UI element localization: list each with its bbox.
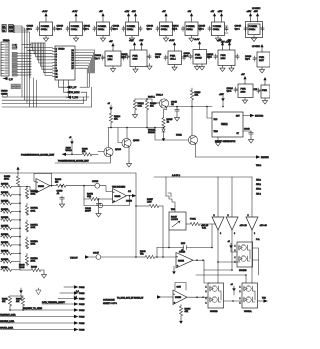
svg-text:1N4148: 1N4148 — [148, 132, 155, 134]
svg-text:W_MDM: W_MDM — [71, 92, 80, 94]
svg-text:10K: 10K — [2, 301, 6, 303]
svg-text:C3040: C3040 — [244, 129, 250, 131]
resistor R3057 — [136, 199, 163, 208]
resistor R3019 pullup — [190, 88, 201, 107]
svg-text:+15V: +15V — [218, 11, 223, 13]
svg-text:P3010: P3010 — [79, 287, 84, 289]
svg-text:4: 4 — [56, 54, 57, 56]
transistor Q3010 — [152, 95, 169, 110]
power +5 opto1 — [228, 241, 238, 252]
svg-text:+5: +5 — [108, 103, 111, 105]
wire +15V rail — [169, 106, 212, 108]
buffer U3043 — [246, 177, 267, 235]
ground diode — [162, 136, 166, 141]
svg-text:C301x: C301x — [186, 29, 193, 31]
resistor R3066 — [16, 296, 25, 310]
svg-text:PWR: PWR — [108, 56, 114, 58]
svg-text:2015: 2015 — [133, 58, 139, 60]
svg-text:R3012: R3012 — [138, 103, 145, 105]
svg-text:2017: 2017 — [259, 60, 265, 62]
connector J300 input header — [2, 25, 15, 33]
svg-text:TW-0:: TW-0: — [256, 165, 262, 167]
svg-text:J_W: J_W — [9, 79, 13, 81]
optocoupler U3056A — [240, 283, 258, 313]
power module PS3025 right edge — [254, 77, 271, 104]
svg-text:Qty 1: Qty 1 — [147, 27, 153, 30]
svg-text:SBR: SBR — [87, 196, 92, 198]
svg-text:11: 11 — [56, 74, 58, 76]
svg-text:.01: .01 — [57, 193, 61, 195]
svg-text:C3023: C3023 — [245, 56, 252, 58]
net arrow W_MDM — [64, 83, 87, 100]
net arrow TXC — [258, 298, 268, 303]
resistor R3052A 2R leg — [25, 220, 38, 232]
svg-text:+5: +5 — [228, 241, 230, 243]
svg-text:+15V: +15V — [219, 94, 224, 96]
svg-text:+5V: +5V — [99, 11, 103, 13]
power module PS3023 right edge — [245, 44, 270, 73]
svg-text:C301x: C301x — [213, 29, 220, 31]
svg-text:U305B: U305B — [175, 297, 182, 299]
svg-text:+5V: +5V — [211, 11, 215, 13]
svg-text:+NO 4B: +NO 4B — [260, 225, 268, 227]
svg-text:JR: JR — [167, 122, 170, 124]
svg-text:2016: 2016 — [221, 58, 227, 60]
svg-text:100K: 100K — [4, 179, 9, 181]
svg-text:Q3019: Q3019 — [133, 140, 140, 142]
title block text — [103, 300, 118, 306]
power module PS3012 — [84, 11, 114, 42]
svg-text:SHEET 3 OF 3: SHEET 3 OF 3 — [103, 303, 118, 305]
buffer U3042 — [226, 177, 247, 235]
svg-text:-12V: -12V — [132, 11, 137, 13]
svg-text:P_W2: P_W2 — [72, 97, 79, 99]
resistor R3054 ladder row — [1, 217, 21, 221]
svg-text:PWR: PWR — [133, 56, 139, 58]
svg-text:RESETN: RESETN — [261, 157, 269, 159]
power module PS3010 — [27, 11, 57, 42]
svg-text:C301x: C301x — [161, 29, 168, 31]
svg-text:PWR: PWR — [170, 56, 176, 58]
svg-text:JW-3:: JW-3: — [256, 189, 261, 191]
svg-text:+6.3V: +6.3V — [194, 39, 200, 41]
svg-text:12: 12 — [56, 76, 58, 78]
svg-text:75R: 75R — [140, 254, 144, 256]
optocoupler U3040B — [235, 242, 253, 272]
power module PS3011 — [57, 11, 87, 42]
connector U301A — [1, 39, 10, 76]
optocoupler U3056B — [206, 283, 224, 313]
svg-text:C3043: C3043 — [147, 26, 154, 28]
svg-text:1: 1 — [235, 246, 236, 248]
capacitor C304B — [179, 243, 187, 254]
bus wires lower left — [2, 87, 92, 107]
op-amp U3055 — [176, 250, 193, 269]
bus tick column — [29, 49, 31, 78]
svg-text:Qty 1: Qty 1 — [121, 56, 127, 59]
op-amp U3050A — [113, 189, 127, 204]
wire resistor bottoms — [9, 309, 24, 311]
svg-text:C301x: C301x — [249, 29, 256, 31]
wire buffer outputs — [217, 230, 252, 283]
wire loop MOP — [156, 224, 213, 258]
svg-text:A-B-W 1:: A-B-W 1: — [172, 174, 181, 177]
svg-text:C301x: C301x — [71, 29, 78, 31]
svg-text:-15V: -15V — [254, 11, 259, 13]
svg-text:CON-MODE: CON-MODE — [103, 300, 115, 302]
svg-text:P3010: P3010 — [79, 323, 84, 325]
svg-text:+5V: +5V — [162, 11, 166, 13]
svg-text:JW-1:: JW-1: — [256, 180, 261, 182]
wire U3055 out — [193, 259, 204, 261]
svg-text:100K: 100K — [31, 227, 36, 229]
svg-text:+5: +5 — [69, 137, 72, 139]
wire section bus B — [154, 174, 252, 177]
wire Q3011 base — [154, 127, 188, 140]
resistor P3061 — [186, 219, 216, 230]
wire loopback vertical — [162, 206, 164, 258]
svg-text:2018: 2018 — [241, 91, 247, 93]
svg-text:LOW: LOW — [147, 202, 152, 204]
svg-text:C3020: C3020 — [184, 53, 191, 55]
svg-text:C305: C305 — [177, 287, 181, 289]
svg-text:+NO 1B: +NO 1B — [201, 225, 209, 227]
svg-text:C3016: C3016 — [95, 55, 102, 57]
svg-text:LOOPB: LOOPB — [171, 219, 179, 221]
svg-text:100K: 100K — [31, 244, 36, 246]
svg-text:6: 6 — [234, 233, 235, 235]
svg-text:1: 1 — [240, 303, 241, 305]
power +5 opto2 — [231, 284, 236, 295]
svg-text:100K: 100K — [31, 194, 36, 196]
svg-text:P3010/EXPANSION_MODEM_XMIT: P3010/EXPANSION_MODEM_XMIT — [21, 154, 55, 157]
svg-text:TRIG: TRIG — [214, 131, 219, 133]
net label column K301 — [12, 44, 29, 76]
svg-text:-: - — [37, 181, 38, 184]
svg-text:1: 1 — [240, 287, 241, 289]
power module PS3015 — [172, 11, 202, 42]
svg-text:C3024: C3024 — [227, 88, 234, 90]
svg-text:BLTN MO: BLTN MO — [255, 116, 264, 118]
resistor R3059 ladder row — [1, 259, 21, 263]
svg-text:P3010: P3010 — [79, 299, 84, 301]
svg-text:LP30NC: LP30NC — [252, 8, 261, 10]
svg-text:U3211: U3211 — [221, 124, 228, 126]
svg-text:C3017: C3017 — [121, 54, 128, 56]
svg-text:Qty 1: Qty 1 — [227, 90, 233, 93]
svg-text:110: 110 — [55, 182, 59, 184]
svg-text:C301x: C301x — [127, 29, 134, 31]
svg-text:Qty 1: Qty 1 — [155, 56, 161, 59]
svg-text:Qty 1: Qty 1 — [184, 55, 190, 58]
svg-text:Q3018: Q3018 — [115, 149, 122, 151]
resistor R3061 — [2, 296, 12, 310]
net wire row 8 — [0, 327, 84, 332]
power +5 pullup — [10, 288, 23, 296]
svg-text:Qty 1: Qty 1 — [235, 27, 241, 30]
ferrite C3746 — [92, 181, 113, 192]
svg-text:8: 8 — [56, 65, 57, 67]
svg-text:6: 6 — [220, 233, 221, 235]
svg-text:DATA_TERMINAL_READY: DATA_TERMINAL_READY — [42, 301, 66, 304]
svg-text:+NO 2B: +NO 2B — [240, 225, 248, 227]
svg-text:POWER: POWER — [71, 26, 80, 28]
svg-text:R3049: R3049 — [31, 267, 38, 269]
resistor R3053 ladder row — [1, 209, 21, 213]
net arrow P_D7 — [59, 83, 90, 89]
svg-text:-15V: -15V — [227, 40, 232, 42]
svg-text:PWR: PWR — [259, 57, 265, 59]
svg-text:5.3K: 5.3K — [202, 228, 207, 230]
wire output to connector — [126, 191, 136, 203]
svg-text:5: 5 — [228, 215, 229, 217]
IC U3018 — [53, 46, 79, 83]
svg-text:SPD/CD_DATA: SPD/CD_DATA — [0, 327, 14, 330]
svg-text:1: 1 — [235, 257, 236, 259]
resistor R3056 ladder row — [1, 234, 21, 238]
wire R3013 bottom — [146, 112, 148, 128]
svg-text:W3010: W3010 — [66, 150, 72, 152]
net wire row 1 — [64, 285, 84, 289]
svg-text:1: 1 — [206, 287, 207, 289]
resistor R3054 — [84, 186, 113, 201]
svg-text:C3746: C3746 — [92, 181, 99, 183]
svg-text:1: 1 — [206, 303, 207, 305]
svg-text:+5V: +5V — [188, 11, 192, 13]
svg-text:3.3K: 3.3K — [138, 106, 143, 108]
svg-text:U3018: U3018 — [58, 49, 65, 51]
svg-text:10K: 10K — [195, 95, 199, 97]
svg-text:PWR: PWR — [195, 55, 201, 57]
wire section bus A — [0, 173, 137, 258]
connector stub U300 — [1, 77, 21, 97]
transistor Q3019 — [118, 128, 140, 162]
svg-text:POWER: POWER — [41, 26, 50, 28]
svg-text:10K: 10K — [150, 106, 154, 108]
svg-text:1: 1 — [206, 298, 207, 300]
net wire row 6 — [0, 314, 84, 319]
trimmer R3047 — [169, 212, 186, 230]
op-amp U3050 — [36, 179, 50, 194]
svg-text:C3050: C3050 — [126, 201, 133, 203]
svg-text:P3010: P3010 — [79, 293, 84, 295]
svg-text:PWR: PWR — [221, 55, 227, 57]
svg-text:R3057A: R3057A — [31, 223, 39, 226]
svg-text:2: 2 — [56, 48, 57, 50]
power marker U3055 — [172, 266, 176, 274]
svg-text:47K: 47K — [185, 311, 189, 313]
ground for R3012 — [132, 112, 137, 118]
svg-text:U3008: U3008 — [1, 91, 8, 93]
wire resistor tops — [135, 98, 159, 103]
svg-text:C301x: C301x — [98, 29, 105, 31]
svg-text:1: 1 — [206, 291, 207, 293]
svg-text:U3055: U3055 — [178, 261, 185, 263]
power module PS3021 +12V/-12V — [121, 40, 152, 73]
svg-text:POWER: POWER — [249, 26, 258, 28]
svg-text:+12V: +12V — [125, 11, 130, 13]
wire TRIG elbow — [207, 107, 212, 119]
svg-text:6: 6 — [56, 60, 57, 62]
svg-text:J-B: J-B — [128, 191, 132, 193]
resistor R3309 — [54, 179, 95, 187]
svg-text:JM: JM — [171, 104, 174, 106]
resistor R3051 ladder row — [1, 192, 21, 196]
svg-text:C3047: C3047 — [93, 253, 100, 255]
svg-text:+15V: +15V — [217, 40, 222, 42]
svg-text:+5V: +5V — [241, 74, 245, 76]
resistor R3014 — [108, 103, 121, 128]
svg-text:1: 1 — [235, 250, 236, 252]
svg-text:C3041: C3041 — [84, 26, 91, 28]
net wire row 4 — [42, 301, 84, 306]
net wire row 7 — [0, 320, 84, 325]
svg-text:U301-0: U301-0 — [156, 95, 164, 97]
ferrite C3047 — [93, 253, 135, 260]
svg-text:P-8:: P-8: — [256, 239, 260, 241]
power module PS3020C +5.3V — [155, 40, 186, 71]
svg-text:-: - — [113, 191, 114, 194]
svg-text:POWER: POWER — [186, 26, 195, 28]
ferrite C3748 — [84, 199, 103, 208]
svg-text:U3050: U3050 — [115, 196, 122, 198]
svg-text:C3022: C3022 — [207, 54, 214, 56]
svg-text:P_D7: P_D7 — [71, 87, 77, 89]
svg-text:R3056A: R3056A — [31, 207, 39, 210]
svg-text:C3019: C3019 — [155, 54, 162, 56]
svg-text:C3044: C3044 — [172, 26, 179, 28]
resistor R3052 ladder row — [1, 200, 21, 204]
svg-text:R307-1: R307-1 — [148, 97, 156, 99]
resistor R3053A 2R leg — [25, 237, 38, 249]
svg-text:TRANSMIT_DATA: TRANSMIT_DATA — [0, 314, 16, 317]
svg-text:R3309: R3309 — [55, 179, 62, 181]
svg-text:Qty 1: Qty 1 — [207, 56, 213, 59]
svg-text:LP30NC: LP30NC — [252, 46, 260, 48]
svg-text:C304B: C304B — [179, 252, 186, 254]
wire U3211 output — [243, 114, 264, 118]
transistor Q3011 — [176, 107, 198, 158]
svg-text:THE EXCEED: THE EXCEED — [112, 187, 126, 189]
resistor R3013 — [145, 99, 157, 112]
svg-text:+5: +5 — [231, 284, 233, 286]
svg-text:REQUEST_TO_SEND: REQUEST_TO_SEND — [23, 308, 43, 310]
svg-text:1: 1 — [240, 298, 241, 300]
svg-text:C3040: C3040 — [57, 26, 64, 28]
svg-text:R3014: R3014 — [114, 116, 121, 118]
svg-text:C3045: C3045 — [199, 26, 206, 28]
resistor R3054A 2R leg — [25, 253, 38, 265]
capacitor C3046 — [171, 102, 180, 122]
svg-text:VCC: VCC — [214, 119, 218, 121]
transistor Q3018 — [55, 128, 122, 164]
resistor R3053 pullup — [4, 167, 20, 187]
jumper W3010 — [66, 137, 74, 154]
svg-text:P3048: P3048 — [19, 267, 24, 269]
resistor R3012 — [133, 99, 144, 112]
svg-text:5: 5 — [248, 215, 249, 217]
svg-text:RST: RST — [236, 116, 240, 118]
svg-text:P3010: P3010 — [79, 304, 84, 306]
wire U305B feedback loop — [175, 283, 208, 299]
svg-text:P3010: P3010 — [79, 330, 84, 332]
svg-text:C3042: C3042 — [113, 26, 120, 28]
svg-text:100K: 100K — [31, 210, 36, 212]
right margin pin list — [256, 165, 262, 241]
resistor R3051A 2R leg — [25, 203, 38, 215]
svg-text:Qty 1: Qty 1 — [27, 27, 33, 30]
svg-text:+5.3V: +5.3V — [169, 40, 175, 42]
resistor R3049 end — [19, 265, 47, 279]
svg-text:Qty 1: Qty 1 — [95, 57, 101, 60]
wire opto chain — [224, 300, 243, 302]
wire fan from U3018 right pins — [78, 50, 95, 87]
svg-text:+5.3V: +5.3V — [72, 11, 78, 13]
diode W3010A — [148, 128, 165, 137]
resistor R3019 — [72, 149, 98, 156]
svg-text:W30: W30 — [171, 209, 175, 211]
wire ladder to opamp — [20, 186, 36, 190]
svg-text:7: 7 — [56, 62, 57, 64]
buffer U3041 — [201, 177, 224, 235]
svg-text:Qty 1: Qty 1 — [245, 58, 251, 61]
svg-text:CT: CT — [237, 133, 240, 135]
connector ticks W30 — [166, 177, 175, 211]
wire opto1 right — [196, 248, 259, 283]
svg-text:POWER: POWER — [127, 26, 136, 28]
svg-text:6: 6 — [254, 233, 255, 235]
svg-text:Qty 1: Qty 1 — [84, 27, 90, 30]
resistor R3057 ladder row — [1, 242, 21, 246]
svg-text:P3010/EXPANSION_MODEM_XMIT: P3010/EXPANSION_MODEM_XMIT — [58, 160, 90, 163]
svg-text:POWER: POWER — [98, 26, 107, 28]
svg-text:+5V: +5V — [109, 41, 113, 43]
svg-text:Qty 1: Qty 1 — [57, 27, 63, 30]
svg-text:1: 1 — [235, 262, 236, 264]
svg-text:27K: 27K — [114, 119, 118, 121]
capacitor C3058 — [57, 185, 65, 208]
power module PS3014 — [147, 11, 177, 42]
wire ladder bus — [19, 187, 21, 271]
net wire row 5 — [23, 308, 84, 312]
svg-text:C3010: C3010 — [27, 26, 34, 28]
power module PS3022 +15V — [207, 40, 239, 72]
net wire row 2 — [60, 291, 84, 295]
resistor R3055 ladder row — [1, 225, 21, 229]
svg-text:2014: 2014 — [108, 59, 114, 61]
power module PS3021D +6.3V — [184, 39, 211, 70]
svg-text:U3050: U3050 — [38, 186, 45, 188]
svg-text:3: 3 — [56, 51, 57, 53]
net wire row 3 — [58, 297, 84, 301]
svg-text:P3061: P3061 — [190, 219, 197, 221]
svg-text:P3010: P3010 — [79, 310, 84, 312]
net label TO_MOD_RCV_IN — [117, 295, 173, 299]
wire U3050 feedback — [34, 173, 54, 186]
power module PS3017 — [235, 11, 265, 42]
power module PS3020 +5V — [95, 41, 126, 72]
svg-text:C3046: C3046 — [235, 26, 242, 28]
resistor R3050 ladder row — [1, 184, 21, 188]
resistor R3050A 2R leg — [25, 187, 38, 199]
svg-text:C301B: C301B — [195, 57, 202, 59]
svg-text:D7: D7 — [72, 68, 74, 70]
svg-text:+5.3V: +5.3V — [42, 11, 48, 13]
power module PS3016 — [199, 11, 229, 42]
svg-text:MOP: MOP — [181, 243, 186, 245]
svg-text:C301x: C301x — [41, 29, 48, 31]
wire bus elbows — [22, 45, 36, 54]
